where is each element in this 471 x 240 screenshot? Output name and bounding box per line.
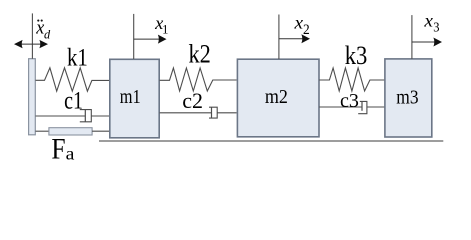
svg-text:F: F bbox=[51, 133, 65, 166]
svg-text:m3: m3 bbox=[396, 86, 418, 109]
arrow x1 coordinate bbox=[134, 14, 167, 59]
label x2 bbox=[293, 13, 309, 38]
svg-text:1: 1 bbox=[162, 22, 168, 36]
mass m1 bbox=[110, 59, 159, 138]
label x3 bbox=[423, 11, 439, 34]
spring k1 bbox=[36, 68, 110, 91]
svg-text:c3: c3 bbox=[340, 90, 359, 112]
arrow x3 coordinate bbox=[412, 15, 442, 59]
spring k2 bbox=[160, 68, 237, 91]
svg-text:c1: c1 bbox=[64, 87, 83, 115]
damper c2 bbox=[160, 107, 237, 118]
arrow x2 coordinate bbox=[279, 15, 310, 60]
ground line bbox=[99, 140, 443, 142]
svg-text:k2: k2 bbox=[189, 40, 211, 69]
svg-text:3: 3 bbox=[433, 20, 439, 34]
damper c3 bbox=[319, 101, 384, 113]
mass m3 bbox=[385, 59, 432, 137]
svg-text:2: 2 bbox=[303, 21, 310, 38]
damper c1 bbox=[36, 110, 110, 122]
svg-text:x: x bbox=[423, 11, 433, 30]
svg-text:c2: c2 bbox=[182, 88, 203, 113]
actuator Fa bar bbox=[36, 128, 110, 135]
svg-text:a: a bbox=[66, 144, 75, 164]
label Fa bbox=[51, 133, 75, 166]
label xdd_d (base acceleration) bbox=[35, 17, 51, 41]
mass m2 bbox=[237, 59, 319, 137]
svg-text:k3: k3 bbox=[345, 41, 368, 70]
svg-text:k1: k1 bbox=[67, 44, 88, 71]
svg-text:m2: m2 bbox=[265, 86, 288, 108]
wire vertical reference line above wall bbox=[31, 13, 33, 58]
wall (base excitation support) bbox=[29, 59, 36, 135]
label x1 bbox=[154, 13, 168, 36]
svg-text:m1: m1 bbox=[120, 85, 141, 108]
arrow double-headed for base motion bbox=[14, 40, 48, 48]
spring k3 bbox=[319, 68, 384, 91]
svg-text:d: d bbox=[44, 27, 51, 41]
